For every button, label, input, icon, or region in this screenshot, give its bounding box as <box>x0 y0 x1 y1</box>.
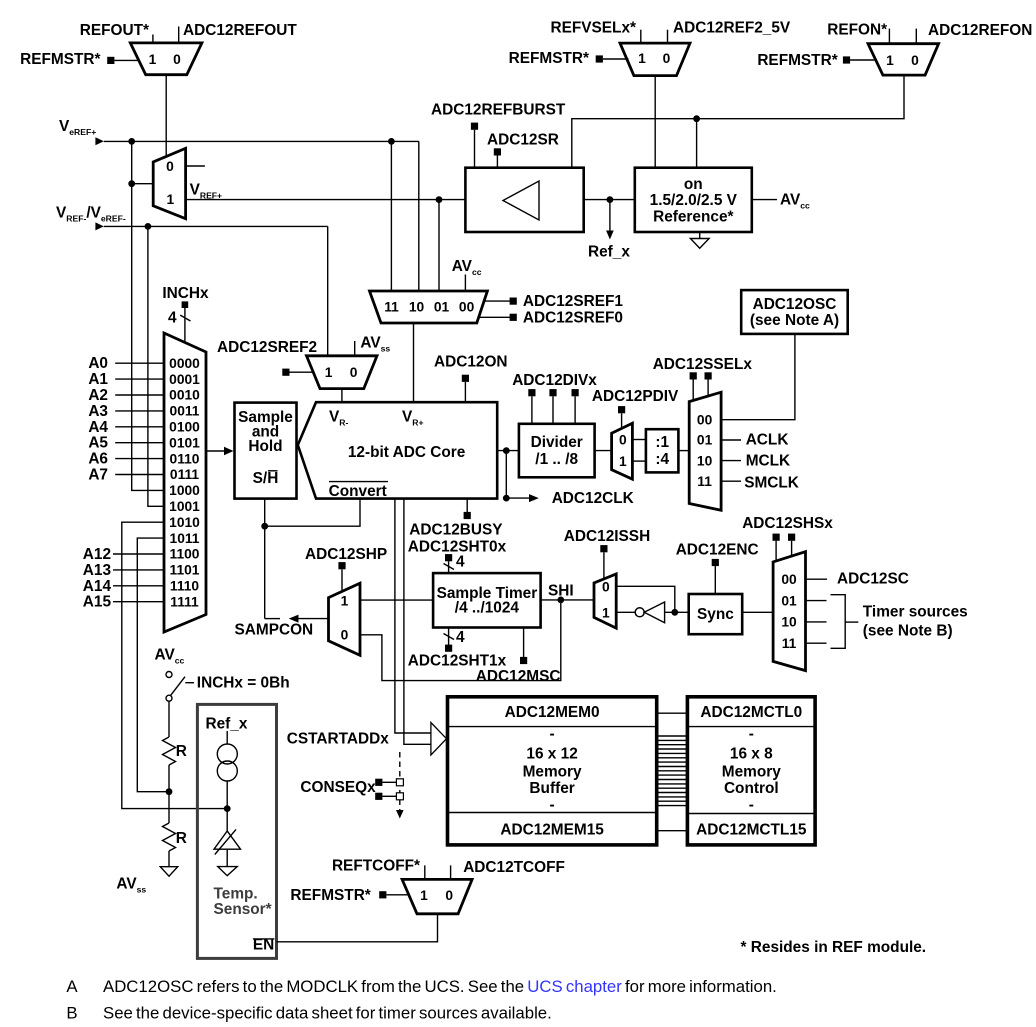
svg-text:A14: A14 <box>83 578 112 595</box>
svg-text:0101: 0101 <box>169 435 200 450</box>
junction dot VeREF+ / SREF 11 input <box>388 138 395 145</box>
wire REFVSELx* tick into mux U2 <box>640 30 642 44</box>
signal square REFMSTR (U25) <box>379 891 386 898</box>
svg-text:1: 1 <box>638 51 646 66</box>
wire ADC12CLK arrow <box>506 497 529 499</box>
separator line mctl bottom <box>687 813 815 815</box>
wire SREF 01 input vertical <box>438 200 440 291</box>
wire current source to node <box>226 781 228 831</box>
svg-text::4: :4 <box>655 451 669 468</box>
wire timer source 10 row <box>806 621 827 623</box>
current source circle 2 <box>217 761 237 781</box>
svg-text:16 x 12: 16 x 12 <box>526 746 577 763</box>
svg-text:ADC12MCTL0: ADC12MCTL0 <box>700 704 802 721</box>
svg-text:A15: A15 <box>83 594 112 611</box>
resistor R2 <box>163 823 176 851</box>
mux U4 VREF+ select <box>153 148 185 218</box>
svg-text:11: 11 <box>697 474 712 489</box>
svg-text:ADC12SREF2: ADC12SREF2 <box>217 339 317 356</box>
svg-text:/4 ../1024: /4 ../1024 <box>455 599 520 616</box>
svg-text:1: 1 <box>619 454 627 469</box>
signal square ADC12SHP <box>338 562 345 569</box>
divider box U12 <box>519 424 595 478</box>
svg-text:Ref_x: Ref_x <box>206 716 248 733</box>
wire ADC12BUSY from core bottom <box>466 499 468 513</box>
svg-text:1: 1 <box>602 605 610 620</box>
signal square ADC12SHT1x <box>445 645 452 652</box>
temp sensor box U24 <box>197 704 276 958</box>
wire ADC12ISSH to mux <box>603 552 605 579</box>
svg-text:REFVSELx*: REFVSELx* <box>550 19 636 36</box>
svg-text:R: R <box>176 743 187 760</box>
wire ADC12REFON tick into mux U3 <box>915 29 917 44</box>
svg-text:INCHx = 0Bh: INCHx = 0Bh <box>197 675 290 692</box>
wire REFOUT* tick into mux U1 <box>152 35 154 44</box>
svg-text:ACLK: ACLK <box>746 432 789 449</box>
wire divider to PDIV mux <box>595 450 612 452</box>
wire ADC12REF2_5V tick into mux U2 <box>667 30 669 44</box>
svg-text:ADC12REFOUT: ADC12REFOUT <box>183 22 297 39</box>
svg-text:00: 00 <box>459 300 475 315</box>
resistor R1 <box>163 737 176 765</box>
wire timer source 11 row <box>806 642 827 644</box>
svg-text:1: 1 <box>149 52 157 67</box>
wire A12 input <box>113 553 164 555</box>
svg-text:1.5/2.0/2.5 V: 1.5/2.0/2.5 V <box>650 192 738 209</box>
svg-text:Buffer: Buffer <box>529 780 574 797</box>
wire 00 row to ADC12OSC <box>721 334 795 420</box>
junction dot VeREF+ / channel-8 vertical <box>128 138 135 145</box>
signal squares ADC12DIVx <box>528 389 535 396</box>
svg-text:A12: A12 <box>83 546 111 563</box>
signal square ADC12PDIV <box>618 406 625 413</box>
wire Ref_x to current source <box>226 731 228 744</box>
wire AVss tick into SREF2 mux 0 <box>354 341 356 356</box>
signal square ADC12SREF0 <box>510 314 517 321</box>
svg-text:10: 10 <box>409 300 425 315</box>
wire A1 input <box>115 378 164 380</box>
svg-text:S/H: S/H <box>253 470 279 487</box>
mux U19 ADC12ISSH select <box>594 574 616 628</box>
ground triangle under reference <box>690 239 709 249</box>
wire VREF- down to SREF2 mux input 1 <box>327 226 329 355</box>
wire A2 input <box>115 394 164 396</box>
signal squares ADC12SHSx <box>773 534 780 541</box>
wires ADC12SHSx to mux <box>775 541 777 562</box>
arrowhead CONSEQx down <box>396 810 404 819</box>
ADC core block U11 <box>298 402 497 498</box>
wire REFON* tick into mux U3 <box>888 29 890 44</box>
svg-text:ADC12SSELx: ADC12SSELx <box>653 356 753 373</box>
wire channel 1010 from temp sensor <box>122 522 227 808</box>
svg-text:1001: 1001 <box>169 499 200 514</box>
svg-text:0: 0 <box>350 365 358 380</box>
wire INCHx to channel mux <box>184 308 186 343</box>
ground triangle temp sensor <box>218 867 237 876</box>
wire inverter output to ISSH 1 input <box>616 611 635 613</box>
switch circle bottom <box>166 695 172 701</box>
svg-text:ADC12ISSH: ADC12ISSH <box>564 528 650 545</box>
wire mux U1 output down to VREF+ mux <box>165 75 167 158</box>
wire VREF+ output line to Reference box <box>186 199 635 201</box>
svg-text:ADC12MEM15: ADC12MEM15 <box>500 821 604 838</box>
junction dot ADC12CLK <box>503 495 510 502</box>
wire SHI line from timer to ISSH mux <box>541 599 594 601</box>
wire REFMSTR to mux U2 <box>603 58 629 60</box>
svg-text:1110: 1110 <box>170 579 199 594</box>
wire ACLK row <box>721 439 741 441</box>
wire ADC12REFOUT tick into mux U1 <box>178 27 180 44</box>
svg-text:Convert: Convert <box>329 483 387 500</box>
svg-text:0: 0 <box>911 53 919 68</box>
wire ADC12ON to core <box>464 382 466 402</box>
svg-text:REFMSTR*: REFMSTR* <box>509 50 589 67</box>
svg-text:0: 0 <box>166 159 174 174</box>
wire SREF 10 input vertical <box>418 141 420 291</box>
wire REFTCOFF* tick <box>424 865 426 879</box>
svg-text:REFMSTR*: REFMSTR* <box>20 51 100 68</box>
memory buffer box U22 <box>448 697 657 845</box>
wire S/H box bottom down <box>264 499 266 619</box>
sample timer box U18 <box>433 573 540 627</box>
svg-text:-: - <box>550 726 555 743</box>
svg-text:(see Note B): (see Note B) <box>863 622 953 639</box>
wire PDIV 0 row to :1:4 box <box>632 439 646 441</box>
svg-text:0: 0 <box>663 51 671 66</box>
buffer box U5 <box>465 168 583 232</box>
svg-text:1: 1 <box>167 192 175 207</box>
mux U8 input channel select INCHx <box>164 333 206 632</box>
mux U13 ADC12PDIV select <box>612 423 633 479</box>
wire mux U3 output down and left to buffer/reference enable <box>572 75 904 168</box>
svg-text:1011: 1011 <box>170 531 200 546</box>
wire A6 input <box>115 458 164 460</box>
arrowhead SAMPCON pointing left <box>289 615 299 623</box>
wire Ref_x arrow down <box>609 200 611 232</box>
mux U1 REFOUT select <box>130 43 202 75</box>
junction dot clock tap <box>503 447 510 454</box>
wire Reference to AVcc <box>752 199 777 201</box>
svg-text:REFON*: REFON* <box>827 21 887 38</box>
svg-text:REFMSTR*: REFMSTR* <box>757 52 837 69</box>
wire ADC12SHT1x from sample timer <box>448 628 450 646</box>
svg-text:ADC12SREF0: ADC12SREF0 <box>523 309 623 326</box>
wire ADC12SREF1 <box>485 300 510 302</box>
svg-text:ADC12REF2_5V: ADC12REF2_5V <box>673 19 791 36</box>
switch blade <box>170 677 185 696</box>
wire SHP 0 input from SHI return path <box>360 600 561 681</box>
svg-text:ADC12MEM0: ADC12MEM0 <box>505 704 600 721</box>
open arrowhead CSTARTADDx into memory <box>431 723 447 756</box>
svg-text:00: 00 <box>697 412 713 427</box>
svg-text:ADC12MCTL15: ADC12MCTL15 <box>696 821 807 838</box>
reference box U6 <box>635 168 752 232</box>
wire convert from core bottom <box>265 499 360 527</box>
svg-text:0000: 0000 <box>169 356 200 371</box>
signal square REFMSTR (U2) <box>596 55 603 62</box>
signal square REFMSTR (U1) <box>107 57 114 64</box>
wire :1:4 to SSEL mux <box>678 450 689 452</box>
switch circle top <box>166 672 172 678</box>
wire sync output to inverter input <box>665 611 689 613</box>
svg-text::1: :1 <box>655 434 669 451</box>
junction dot REFON net to Reference box <box>693 115 700 122</box>
wire core to memory bus line 1 <box>395 499 431 733</box>
svg-text:0: 0 <box>341 628 349 643</box>
svg-text:R: R <box>176 830 187 847</box>
wire ADC12TCOFF tick <box>450 865 452 879</box>
ground triangle AVss <box>160 867 177 877</box>
svg-text:Memory: Memory <box>722 764 781 781</box>
svg-text:Divider: Divider <box>531 434 583 451</box>
svg-text:* Resides in REF module.: * Resides in REF module. <box>741 939 927 956</box>
svg-text:Ref_x: Ref_x <box>588 244 630 261</box>
svg-text:ADC12ON: ADC12ON <box>434 353 508 370</box>
svg-text:ADC12OSC: ADC12OSC <box>753 296 837 313</box>
bus slash SHT0x <box>444 564 455 570</box>
wire A15 input <box>113 601 164 603</box>
signal square ADC12MSC <box>520 657 527 664</box>
svg-text:0100: 0100 <box>169 420 200 435</box>
input arrow VeREF+ <box>95 137 103 145</box>
wire ISSH 0 input from sync output <box>616 586 675 612</box>
svg-text:ADC12SHT1x: ADC12SHT1x <box>408 653 507 670</box>
wire to VREF+ mux input 1 <box>132 183 154 185</box>
signal squares ADC12SSELx <box>690 372 697 379</box>
wire REFMSTR to mux U25 <box>386 894 409 896</box>
svg-text:Hold: Hold <box>248 438 282 455</box>
current source circle 1 <box>217 744 237 764</box>
svg-text:INCHx: INCHx <box>162 285 209 302</box>
separator line mem bottom <box>448 812 657 814</box>
wire clock tap down <box>505 451 507 499</box>
bus hatch between memory boxes <box>657 735 688 737</box>
wire channel 1011 from battery divider <box>137 538 169 792</box>
signal squares CONSEQx <box>375 779 382 786</box>
svg-text:0010: 0010 <box>169 388 200 403</box>
svg-text:1: 1 <box>886 53 894 68</box>
svg-text:1010: 1010 <box>169 515 200 530</box>
mux U21 sample trigger select <box>773 552 805 671</box>
svg-text:0: 0 <box>173 52 181 67</box>
memory control box U23 <box>687 697 815 845</box>
svg-text:Reference*: Reference* <box>653 209 733 226</box>
svg-text:REFTCOFF*: REFTCOFF* <box>332 858 420 875</box>
svg-text:1111: 1111 <box>170 594 199 609</box>
separator line mctl top <box>687 726 815 728</box>
svg-text:ADC12BUSY: ADC12BUSY <box>409 521 503 538</box>
wire ADC12REFBURST down to buffer box <box>474 130 476 168</box>
buffer triangle <box>503 181 539 220</box>
svg-text:Sensor*: Sensor* <box>214 901 272 918</box>
signal square REFMSTR (U3) <box>843 56 850 63</box>
svg-text:01: 01 <box>434 300 450 315</box>
svg-text:A2: A2 <box>88 387 108 404</box>
svg-text:ADC12REFON: ADC12REFON <box>928 22 1032 39</box>
mux U15 clock source select <box>689 392 721 510</box>
mux U17 ADC12SHP select <box>329 583 361 655</box>
bus slash INCHx <box>180 315 190 321</box>
svg-text:ADC12MSC: ADC12MSC <box>476 668 561 685</box>
bus slash SHT1x <box>444 634 455 640</box>
svg-text:REFMSTR*: REFMSTR* <box>290 887 370 904</box>
mux U2 REFVSEL select <box>620 43 690 76</box>
wire TCOFF mux output to temp sensor EN <box>277 914 438 942</box>
svg-text:0: 0 <box>445 888 453 903</box>
wire REFMSTR to mux U1 <box>114 59 139 61</box>
junction dot convert/sampcon <box>261 523 268 530</box>
svg-text:ADC12PDIV: ADC12PDIV <box>592 388 679 405</box>
svg-text:A1: A1 <box>88 371 108 388</box>
wire A14 input <box>113 585 164 587</box>
wire timer source 01 row <box>806 600 827 602</box>
sync box U20 <box>689 594 743 634</box>
separator line mem top <box>448 726 657 728</box>
wire ADC12SC row <box>806 578 828 580</box>
inverter bubble <box>635 608 644 617</box>
wire ADC12SREF2 to mux <box>290 371 315 373</box>
svg-text:A4: A4 <box>88 419 108 436</box>
svg-text:A6: A6 <box>88 451 108 468</box>
signal square ADC12ISSH <box>600 545 607 552</box>
svg-text:11: 11 <box>384 300 399 315</box>
wire SREF mux output to ADC core VR+ <box>413 323 415 402</box>
mux U3 REFON select <box>868 44 939 75</box>
svg-text:ADC12SHSx: ADC12SHSx <box>742 515 833 532</box>
svg-text:1: 1 <box>341 593 349 608</box>
svg-text:A0: A0 <box>88 355 108 372</box>
arrowhead into sample and hold <box>224 447 234 456</box>
svg-text:Timer sources: Timer sources <box>863 604 968 621</box>
svg-text:Memory: Memory <box>523 764 582 781</box>
svg-text:B: B <box>66 1003 77 1022</box>
svg-text:MCLK: MCLK <box>746 453 790 470</box>
ADC12OSC box U16 <box>741 290 848 334</box>
wire A13 input <box>113 569 164 571</box>
svg-text:Control: Control <box>724 780 779 797</box>
wire ADC12SREF0 <box>480 316 511 318</box>
wire ADC12ENC to sync <box>714 566 716 594</box>
svg-text:16 x 8: 16 x 8 <box>730 746 773 763</box>
temp diode triangle <box>214 831 241 849</box>
wires CONSEQx to taps <box>382 781 396 783</box>
wire ADC12PDIV to mux <box>621 413 623 428</box>
junction dot VREF- / channel-9 vertical <box>145 223 152 230</box>
signal square ADC12SHT0x <box>445 554 452 561</box>
svg-text:-: - <box>749 726 754 743</box>
svg-text:0011: 0011 <box>170 404 200 419</box>
wires ADC12SSELx to mux <box>692 380 694 401</box>
svg-text:1101: 1101 <box>170 563 200 578</box>
input arrow VREF-/VeREF- <box>95 222 103 230</box>
signal square ADC12ON <box>462 375 469 382</box>
junction dot SHI <box>557 597 564 604</box>
wire AVcc tick into SREF mux 00 <box>464 275 466 292</box>
svg-text:10: 10 <box>781 615 797 630</box>
wire VeREF+ horizontal <box>104 140 419 142</box>
svg-text:11: 11 <box>782 636 797 651</box>
svg-text:REFOUT*: REFOUT* <box>80 22 149 39</box>
svg-text:ADC12CLK: ADC12CLK <box>552 490 634 507</box>
inverter triangle <box>644 602 664 623</box>
wire diode to ground <box>226 849 228 866</box>
wire core to divider clock line <box>497 450 519 452</box>
wire A0 input <box>115 362 164 364</box>
svg-text:ADC12SHP: ADC12SHP <box>305 546 387 563</box>
junction dot sync output <box>671 609 678 616</box>
wire VREF- horizontal <box>104 225 328 227</box>
wire mem0 to mctl0 <box>657 712 688 714</box>
wire REFMSTR to mux U3 <box>850 59 876 61</box>
svg-text:(see Note A): (see Note A) <box>750 312 839 329</box>
wire PDIV 1 row to :1:4 box <box>632 460 646 462</box>
svg-text:ADC12SR: ADC12SR <box>487 131 559 148</box>
svg-text:ADC12DIVx: ADC12DIVx <box>512 372 597 389</box>
svg-text:A5: A5 <box>88 435 108 452</box>
wire core to memory bus line 2 <box>404 499 431 745</box>
svg-text:SAMPCON: SAMPCON <box>235 622 314 639</box>
svg-text:A13: A13 <box>83 562 111 579</box>
wire bracket to label <box>845 621 858 623</box>
svg-text:0111: 0111 <box>170 467 199 482</box>
svg-text:4: 4 <box>168 309 177 326</box>
wire SHS mux output to sync <box>742 611 773 613</box>
svg-text:CSTARTADDx: CSTARTADDx <box>287 730 389 747</box>
svg-text:A7: A7 <box>88 467 108 484</box>
open square tap 2 <box>396 793 403 800</box>
wire channel-9 VREF- vertical down to INCH mux 1001 <box>148 226 164 506</box>
wire ADC12SR down to buffer box <box>496 156 498 168</box>
svg-text:ADC12ENC: ADC12ENC <box>676 542 759 559</box>
svg-text:0001: 0001 <box>169 372 200 387</box>
svg-text:1100: 1100 <box>170 547 200 562</box>
predivider box U14 <box>646 429 679 472</box>
signal square ADC12REFBURST <box>471 123 478 130</box>
wire ADC12SHP to mux <box>341 569 343 591</box>
sample and hold box U10 <box>235 403 297 499</box>
wires ADC12DIVx to divider <box>531 396 533 424</box>
wire REFON net down into Reference box <box>696 119 698 168</box>
wire A7 input <box>115 474 164 476</box>
signal square ADC12SREF1 <box>510 298 517 305</box>
wire A3 input <box>115 410 164 412</box>
wire MCLK row <box>721 460 741 462</box>
svg-text:4: 4 <box>456 554 465 571</box>
svg-text:01: 01 <box>697 433 713 448</box>
wire switch label tick <box>185 682 194 684</box>
wire R2 to ground <box>168 851 170 867</box>
open square tap 1 <box>396 779 403 786</box>
wire channel-8 VeREF+ vertical down to INCH mux 1000 <box>132 141 164 490</box>
svg-text:-: - <box>749 797 754 814</box>
svg-text:1: 1 <box>325 365 333 380</box>
mux U9 ADC12SREF2 select <box>307 356 378 389</box>
junction dot temp sensor output <box>224 805 231 812</box>
bracket timer sources <box>831 595 846 649</box>
svg-text:4: 4 <box>456 629 465 646</box>
svg-text:A3: A3 <box>88 403 108 420</box>
svg-text:00: 00 <box>781 572 797 587</box>
svg-text:ADC12SC: ADC12SC <box>837 571 909 588</box>
svg-text:0: 0 <box>602 579 610 594</box>
wire switch to resistor R1 <box>168 701 170 737</box>
svg-text:A: A <box>66 977 78 996</box>
ground stub under reference <box>699 232 701 239</box>
signal square ADC12SR <box>494 148 501 155</box>
svg-text:0: 0 <box>619 432 627 447</box>
wire mux U2 output down to Reference box <box>654 76 656 168</box>
svg-text:SMCLK: SMCLK <box>744 474 799 491</box>
